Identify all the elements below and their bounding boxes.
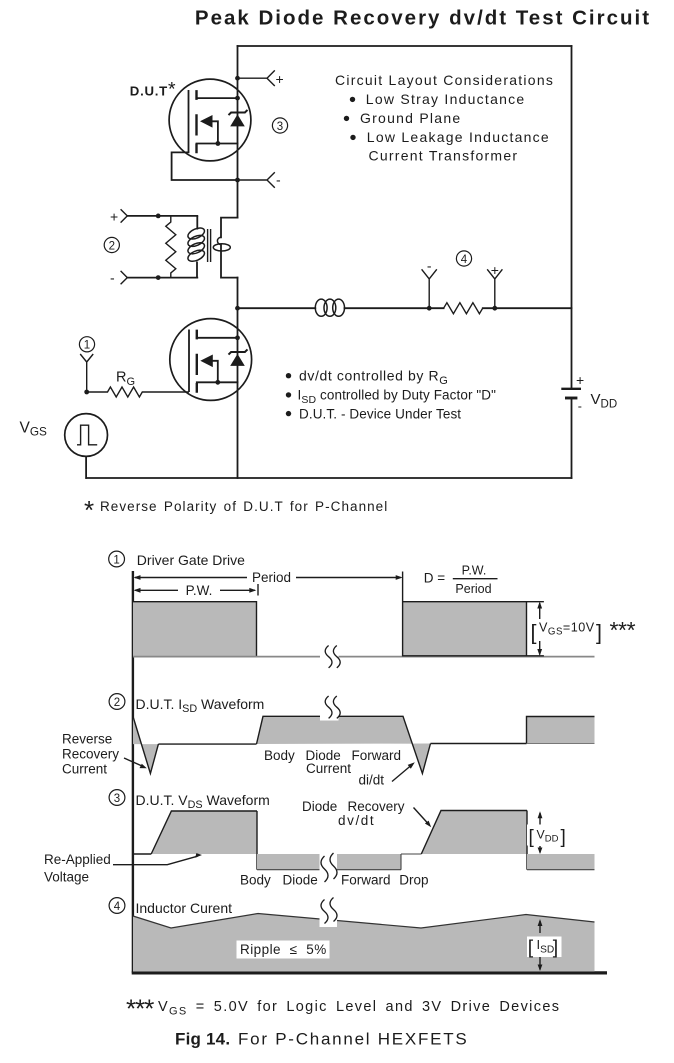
inductor L1 (315, 299, 344, 316)
wire VGS to ground rail (85, 456, 87, 478)
waveform 4 break (320, 898, 338, 928)
waveform 3 first trapezoid (151, 811, 257, 870)
resistor sense (444, 303, 483, 314)
svg-text:*: * (84, 495, 94, 525)
svg-text:]: ] (596, 621, 602, 645)
wire DUT gate to source tie (172, 152, 238, 180)
probe - transformer input (110, 269, 127, 285)
wire bottom rail (86, 477, 571, 479)
waveform 3 break (320, 849, 338, 888)
label body diode forward current (264, 748, 401, 776)
wire mid line center (345, 307, 444, 309)
waveform 2 baseline right (431, 743, 527, 745)
node 3 label (272, 118, 287, 133)
wire right rail upper (571, 46, 573, 388)
wire mid line right (483, 307, 572, 309)
label diode recovery dv/dt (302, 799, 431, 828)
node transformer input bottom (156, 275, 161, 280)
source VGS pulse generator (20, 414, 108, 457)
svg-text:1: 1 (84, 340, 90, 352)
waveform 2 baseline left (158, 743, 256, 745)
wire mid line left (238, 307, 316, 309)
waveform 2 second block (527, 717, 595, 744)
label [VGS=10V] *** (531, 617, 636, 645)
MOSFET Q2 driver (170, 319, 252, 401)
svg-text:+: + (491, 262, 499, 278)
label 1 Driver Gate Drive (109, 551, 245, 568)
svg-text:3: 3 (277, 121, 283, 133)
probe + transformer input (110, 208, 127, 224)
svg-text:Peak Diode Recovery dv/dt Test: Peak Diode Recovery dv/dt Test Circuit (195, 6, 651, 29)
label [VDD] (527, 825, 570, 849)
probe + at DUT drain (238, 70, 284, 86)
waveform 2 break (320, 695, 340, 721)
svg-text:Current: Current (306, 761, 351, 776)
svg-text:Low Leakage Inductance: Low Leakage Inductance (367, 129, 550, 145)
svg-text:For P-Channel HEXFETS: For P-Channel HEXFETS (238, 1030, 468, 1049)
svg-text:dv/dt: dv/dt (338, 813, 375, 828)
waveform 3 forward drop strip (257, 854, 421, 870)
waveform 2 body diode block (257, 716, 431, 773)
formula D = P.W./Period (424, 564, 498, 596)
node 1 label (79, 337, 94, 352)
label D.U.T* (130, 78, 177, 100)
svg-text:[: [ (529, 827, 535, 848)
wire main vertical lower (through driver MOSFET to ground rail) (237, 308, 239, 478)
waveform 1 gate pulse 2 (403, 572, 544, 657)
waveform 1 break (320, 644, 340, 670)
svg-text:VGS = 5.0V for Logic Level and: VGS = 5.0V for Logic Level and 3V Drive … (158, 999, 560, 1018)
dimension arrow VDD (538, 811, 543, 854)
svg-text:2: 2 (109, 240, 115, 252)
wire transformer input top (127, 215, 197, 217)
wire right rail lower (571, 400, 573, 479)
label body diode forward drop (240, 872, 429, 887)
svg-text:]: ] (561, 827, 566, 848)
svg-text:***: *** (610, 617, 636, 643)
svg-text:Period: Period (252, 570, 291, 585)
probe at gate drive (80, 354, 93, 392)
svg-text:Recovery: Recovery (62, 747, 119, 762)
label reverse recovery current (62, 732, 147, 777)
svg-text:Fig 14.: Fig 14. (175, 1030, 230, 1049)
waveform 3 trailing strip (527, 854, 595, 870)
probe + mid line (487, 262, 502, 308)
node transformer input top (156, 214, 161, 219)
svg-text:Reverse: Reverse (62, 732, 112, 747)
label 3 DUT VDS waveform (109, 790, 270, 811)
transformer T1 core (208, 229, 211, 262)
node: DUT source probe junction (235, 178, 240, 183)
svg-text:1: 1 (113, 554, 119, 566)
svg-text:P.W.: P.W. (462, 564, 487, 578)
wire main vertical upper (drain of DUT) (237, 46, 239, 218)
svg-text:Forward Drop: Forward Drop (341, 872, 429, 887)
node 4 label (456, 251, 471, 266)
svg-text:4: 4 (114, 901, 121, 913)
footnote: *** VGS = 5.0V (126, 994, 560, 1024)
svg-text:3: 3 (114, 793, 120, 805)
node mid junction (235, 306, 240, 311)
waveform 1 gate pulse 1 (133, 602, 257, 657)
svg-text:+: + (276, 71, 284, 87)
waveform 1 low line (133, 656, 595, 658)
svg-text:Diode Recovery: Diode Recovery (302, 799, 405, 814)
svg-text:Current: Current (62, 762, 107, 777)
label ripple (237, 941, 330, 959)
text block: Circuit Layout Considerations (335, 72, 554, 164)
svg-text:Reverse Polarity of D.U.T for: Reverse Polarity of D.U.T for P-Channel (100, 499, 388, 514)
waveform 2 reverse recovery spike (133, 717, 158, 774)
node probe - mid (427, 306, 432, 311)
svg-text:+: + (110, 208, 118, 224)
waveform 3 second trapezoid (421, 811, 527, 870)
svg-text:+: + (576, 372, 584, 388)
transformer T1 primary winding (186, 216, 206, 278)
transformer T1 secondary winding (213, 237, 230, 251)
svg-text:Ground Plane: Ground Plane (360, 110, 461, 126)
dimension arrow P.W. (134, 583, 259, 598)
wire transformer input bottom (127, 277, 197, 279)
svg-text:Re-Applied: Re-Applied (44, 852, 111, 867)
label [ISD] (527, 937, 562, 959)
text block: dv/dt bullets (286, 367, 496, 421)
battery VDD (561, 372, 617, 414)
waveform 4 inductor current fill (133, 914, 595, 972)
waveform bottom rail (132, 971, 607, 974)
node: DUT drain probe junction (235, 76, 240, 81)
waveform 3 zero line left (133, 853, 151, 855)
wire top rail (238, 45, 572, 47)
svg-text:Voltage: Voltage (44, 869, 89, 884)
waveform axis vertical (132, 571, 134, 973)
svg-text:2: 2 (114, 697, 120, 709)
label re-applied voltage (44, 852, 202, 884)
dimension arrow ISD (538, 919, 543, 971)
node 2 label (104, 237, 119, 252)
svg-text:-: - (427, 257, 432, 273)
dimension arrow Period (134, 570, 403, 585)
svg-text:P.W.: P.W. (186, 583, 213, 598)
svg-text:Inductor Curent: Inductor Curent (136, 900, 233, 916)
svg-text:D =: D = (424, 570, 446, 585)
svg-text:]: ] (553, 937, 558, 959)
svg-text:-: - (110, 269, 115, 285)
svg-text:Driver Gate Drive: Driver Gate Drive (137, 552, 245, 568)
label di/dt (359, 762, 415, 787)
svg-text:Period: Period (455, 582, 491, 596)
wire transformer secondary jog top (221, 218, 238, 238)
caption: Fig 14 (175, 1030, 468, 1049)
svg-text:[: [ (528, 937, 534, 959)
svg-text:[: [ (531, 621, 537, 645)
probe - at DUT source (238, 172, 282, 188)
svg-text:-: - (276, 172, 281, 188)
resistor shunt (CT burden) (166, 216, 176, 278)
svg-text:D.U.T. - Device Under Test: D.U.T. - Device Under Test (299, 406, 461, 421)
svg-text:4: 4 (461, 254, 468, 266)
svg-text:di/dt: di/dt (359, 773, 385, 788)
dimension arrow VGS amplitude (537, 602, 542, 657)
node RG-VGS junction (84, 390, 89, 395)
svg-text:Low Stray Inductance: Low Stray Inductance (366, 91, 526, 107)
wire transformer secondary jog bottom (221, 245, 238, 278)
resistor RG (87, 370, 189, 398)
svg-text:Ripple ≤ 5%: Ripple ≤ 5% (240, 942, 327, 957)
label 2 DUT ISD waveform (109, 694, 264, 715)
wire main vertical middle (237, 278, 239, 309)
label 4 inductor current (109, 898, 232, 916)
footnote: reverse polarity (84, 495, 388, 525)
MOSFET Q1 D.U.T. (169, 79, 251, 161)
svg-text:Circuit Layout Considerations: Circuit Layout Considerations (335, 72, 554, 88)
svg-text:Current Transformer: Current Transformer (369, 148, 519, 164)
svg-text:Body Diode: Body Diode (240, 872, 318, 887)
waveform 1 trailing low line (0, 0, 1, 1)
node probe + mid (492, 306, 497, 311)
probe - mid line (422, 257, 437, 308)
svg-text:***: *** (126, 994, 154, 1024)
svg-text:-: - (578, 399, 582, 413)
